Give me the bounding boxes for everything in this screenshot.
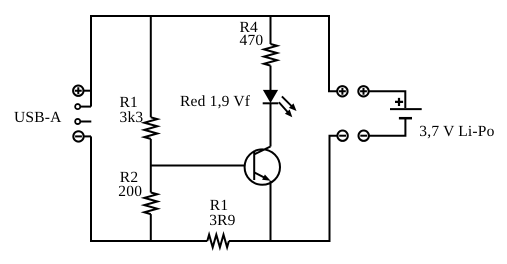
connector minus terminal circuit side	[337, 131, 347, 141]
wire left minus rail down	[90, 136, 92, 241]
connector plus terminal battery side	[358, 86, 368, 96]
wire left rail	[90, 15, 92, 107]
wire mid vertical lower	[150, 214, 152, 242]
svg-text:3k3: 3k3	[120, 109, 144, 126]
wire right rail upper	[329, 15, 337, 91]
connector USB-A minus terminal	[73, 131, 91, 141]
wire battery negative lead	[369, 119, 406, 136]
resistor R1 3R9 (horizontal)	[207, 235, 229, 248]
resistor R1 3k3 (vertical)	[144, 117, 157, 139]
LED D1 (Red 1,9 Vf)	[263, 90, 297, 117]
battery plus mark	[395, 98, 403, 106]
wire top rail	[91, 15, 329, 17]
svg-text:3R9: 3R9	[209, 212, 235, 229]
svg-text:USB-A: USB-A	[14, 109, 62, 126]
wire right rail lower	[330, 136, 338, 242]
wire bottom rail right	[229, 240, 331, 242]
transistor Q1	[245, 147, 280, 185]
battery BT1 negative plate	[399, 117, 412, 120]
wire bottom rail left	[90, 240, 207, 242]
wire R4 to LED	[270, 66, 272, 90]
svg-text:Red 1,9 Vf: Red 1,9 Vf	[180, 93, 251, 110]
wire emitter down	[270, 181, 272, 242]
resistor R2 200 (vertical)	[144, 193, 157, 215]
battery BT1 positive plate	[390, 108, 422, 110]
wire R4 branch top	[270, 15, 272, 44]
wire LED to collector	[270, 103, 272, 146]
svg-text:3,7 V Li-Po: 3,7 V Li-Po	[419, 123, 494, 140]
resistor R4 470 (vertical)	[264, 44, 277, 66]
wire base	[151, 165, 244, 167]
connector USB-A plus terminal	[73, 86, 91, 96]
wire mid vertical upper	[150, 15, 152, 117]
wire battery positive lead	[369, 91, 406, 108]
wire mid vertical between R1 and R2	[150, 139, 152, 193]
connector USB-A data pin 1	[75, 104, 91, 109]
connector plus terminal circuit side	[337, 86, 347, 96]
svg-text:470: 470	[240, 32, 264, 49]
connector USB-A data pin 2 stub	[75, 119, 91, 124]
connector minus terminal battery side	[359, 131, 369, 141]
svg-text:200: 200	[118, 183, 142, 200]
